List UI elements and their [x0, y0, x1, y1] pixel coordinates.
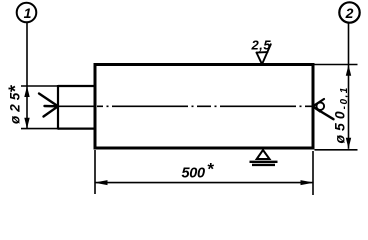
centerline dash-dot axis [97, 105, 313, 107]
svg-text:1: 1 [24, 5, 32, 21]
ф25 extension line top [21, 85, 58, 87]
rotating center symbol at right face [313, 99, 334, 119]
ф25 dimension line [26, 86, 28, 129]
500 extension line left [94, 150, 96, 194]
ф50 dimension line [348, 65, 350, 149]
left lathe center symbol (arrow into left face) [39, 94, 58, 117]
callout balloon 2 [339, 2, 359, 22]
500 dimension line [95, 182, 313, 184]
ф50 dimension arrow up [346, 65, 351, 76]
roughness symbol (check mark on top edge) [257, 44, 271, 64]
ф25 dimension arrow down [24, 118, 29, 129]
leader line from balloon 1 [26, 22, 28, 86]
ф25 extension line bottom [21, 128, 58, 130]
svg-text:2: 2 [345, 5, 354, 21]
500 dimension arrow left [94, 180, 108, 185]
500 extension line right [312, 151, 314, 195]
main shaft body outline [95, 65, 313, 149]
step journal bottom edge [58, 128, 95, 130]
leader line from balloon 2 [348, 23, 350, 65]
fixed support symbol under shaft [250, 150, 278, 165]
500 dimension arrow right [301, 180, 315, 185]
ф50 extension line bottom [315, 149, 358, 151]
callout balloon 1 [17, 3, 37, 23]
step journal left face [57, 85, 59, 130]
centerline solid part through step [58, 105, 94, 107]
ф50 dimension arrow down [346, 138, 351, 149]
ф50 extension line top [315, 64, 358, 66]
ф25 dimension arrow up [24, 86, 29, 97]
step journal top edge [58, 85, 95, 87]
